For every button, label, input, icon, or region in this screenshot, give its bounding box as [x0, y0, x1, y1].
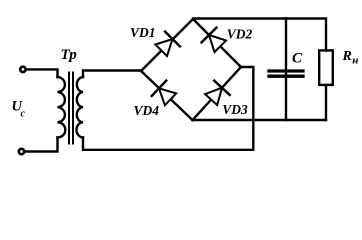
svg-text:с: с: [21, 109, 26, 120]
transformer Tp secondary winding: [76, 77, 83, 138]
wire secondary top to bridge left node: [83, 71, 141, 78]
svg-text:R: R: [342, 49, 352, 64]
transformer Tp primary winding: [58, 77, 66, 138]
bridge edge bottom-left: [141, 71, 193, 120]
capacitor C bottom plate: [269, 75, 303, 78]
wire bottom bus from bridge bottom node: [193, 119, 327, 121]
wire bottom-left terminal to primary: [25, 138, 58, 152]
svg-text:VD4: VD4: [134, 103, 160, 118]
diode VD2: [202, 28, 227, 52]
svg-text:C: C: [292, 51, 303, 67]
transformer core line 2: [72, 73, 74, 144]
svg-text:Тр: Тр: [61, 47, 78, 63]
wire resistor bottom lead: [325, 85, 327, 120]
wire top rail from bridge top node to resistor: [193, 19, 326, 51]
diode VD1: [155, 32, 180, 56]
diode VD3: [205, 81, 230, 105]
wire top-left terminal to primary: [27, 69, 58, 77]
svg-text:VD3: VD3: [222, 102, 248, 117]
bridge edge left-top: [141, 19, 193, 71]
resistor Rn body: [319, 50, 333, 85]
svg-text:н: н: [352, 55, 358, 67]
bridge edge right-bottom: [193, 67, 242, 120]
terminal top-left: [20, 67, 25, 72]
transformer core line 1: [68, 73, 70, 144]
svg-text:VD1: VD1: [130, 25, 156, 40]
svg-text:VD2: VD2: [227, 27, 253, 42]
wire secondary bottom, bottom rail, up to bridge right node: [83, 67, 253, 150]
terminal bottom-left: [19, 149, 24, 154]
wire capacitor lead (continuous through plates): [285, 19, 287, 121]
capacitor C top plate: [269, 69, 303, 72]
diode VD4: [152, 81, 176, 106]
bridge edge top-right: [193, 19, 241, 67]
